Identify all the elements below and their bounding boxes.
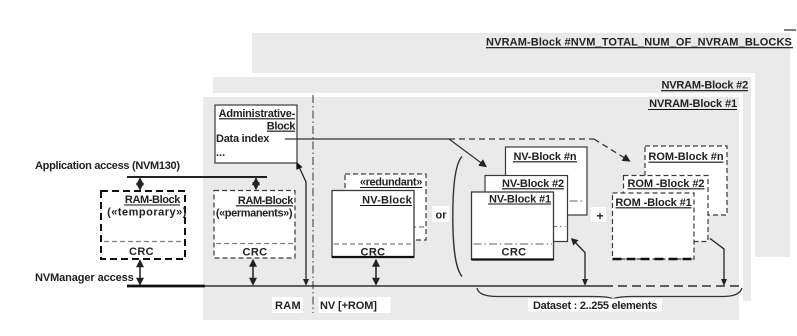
wire NVManager access line (dashed) bbox=[604, 285, 741, 287]
panel NVRAM-Block #1 (front) bbox=[199, 93, 743, 324]
panel NVRAM-Block #2 (middle) bbox=[209, 73, 755, 305]
box redundant NV-Block (dashed behind) bbox=[345, 174, 426, 240]
svg-text:CRC: CRC bbox=[501, 247, 526, 259]
svg-text:...: ... bbox=[216, 147, 225, 159]
box RAM-Block permanent bbox=[214, 191, 295, 259]
box RAM-Block temporary bbox=[101, 191, 185, 259]
box NV-Block #n bbox=[506, 147, 588, 215]
svg-text:RAM-Block: RAM-Block bbox=[238, 195, 294, 207]
divider CRC NV-Block #n bbox=[508, 200, 586, 202]
box NV-Block #2 bbox=[485, 176, 568, 242]
divider CRC NV-Block #2 bbox=[487, 226, 566, 228]
svg-text:(«temporary»): («temporary») bbox=[107, 207, 187, 219]
svg-text:NVManager access: NVManager access bbox=[35, 272, 134, 284]
arrow data index to NV-Block stack (solid diagonal) bbox=[449, 139, 486, 167]
svg-text:NV [+ROM]: NV [+ROM] bbox=[320, 300, 377, 312]
wire NVManager access line (solid) bbox=[204, 285, 604, 287]
svg-text:Data index: Data index bbox=[216, 133, 270, 145]
svg-text:RAM: RAM bbox=[275, 300, 301, 312]
svg-text:NV-Block: NV-Block bbox=[362, 195, 413, 207]
svg-text:or: or bbox=[436, 210, 448, 222]
box ROM-Block #n bbox=[645, 146, 727, 215]
svg-text:NVRAM-Block #2: NVRAM-Block #2 bbox=[662, 80, 749, 92]
arrow NV-Block stack to NVManager line (elbow double arrow) bbox=[574, 241, 586, 285]
svg-text:(«permanents»): («permanents») bbox=[216, 208, 293, 220]
divider CRC temporary bbox=[104, 241, 182, 243]
svg-text:Administrative-: Administrative- bbox=[219, 108, 296, 120]
brace dataset bbox=[477, 288, 742, 299]
box NV-Block (redundant front) bbox=[332, 191, 414, 258]
box ROM-Block #2 bbox=[624, 176, 709, 242]
svg-text:Application access (NVM130): Application access (NVM130) bbox=[35, 160, 180, 172]
wire data index dashed continuation bbox=[449, 138, 594, 140]
panel NVRAM-Block #NVM (back) bbox=[252, 33, 790, 257]
arrow data index to ROM-Block stack (dashed diagonal) bbox=[594, 139, 630, 161]
svg-text:ROM-Block #n: ROM-Block #n bbox=[648, 151, 723, 163]
arrow app line to RAM-Block permanent bbox=[255, 179, 257, 190]
svg-text:«redundant»: «redundant» bbox=[360, 177, 422, 189]
svg-text:ROM -Block #1: ROM -Block #1 bbox=[615, 197, 691, 209]
label NV [+ROM] bbox=[319, 297, 391, 313]
svg-text:ROM -Block #2: ROM -Block #2 bbox=[628, 178, 705, 190]
label Dataset : 2..255 elements bbox=[528, 299, 662, 312]
svg-text:NVRAM-Block #NVM_TOTAL_NUM_OF_: NVRAM-Block #NVM_TOTAL_NUM_OF_NVRAM_BLOC… bbox=[486, 37, 792, 49]
artifact dash top-right bbox=[784, 29, 796, 31]
label + bbox=[591, 207, 606, 222]
arrow RAM-Block temporary to NVManager line bbox=[139, 261, 141, 285]
box ROM-Block #1 bbox=[613, 193, 695, 259]
svg-text:NVRAM-Block #1: NVRAM-Block #1 bbox=[649, 98, 737, 110]
wire application access line bbox=[127, 176, 267, 178]
svg-text:CRC: CRC bbox=[129, 246, 154, 258]
box NV-Block #1 bbox=[472, 192, 554, 260]
arrow RAM-Block permanent to NVManager line bbox=[252, 260, 254, 285]
divider CRC NV-Block bbox=[334, 243, 412, 245]
wire NVManager access line (thick left) bbox=[127, 285, 205, 288]
divider redundant behind box bbox=[347, 226, 424, 228]
arrow ROM-Block stack to NVManager line (elbow) bbox=[710, 239, 724, 285]
svg-text:CRC: CRC bbox=[242, 247, 267, 259]
separator dash-dot line RAM / NV bbox=[312, 95, 314, 313]
arrow administrative block to NVManager line (elbow) bbox=[298, 164, 307, 285]
box Administrative-Block bbox=[215, 105, 297, 163]
svg-text:NV-Block #n: NV-Block #n bbox=[513, 151, 576, 163]
arrow NV-Block to NVManager line bbox=[375, 260, 377, 285]
svg-text:+: + bbox=[596, 209, 603, 223]
svg-text:NV-Block #2: NV-Block #2 bbox=[502, 178, 564, 190]
svg-text:Dataset : 2..255 elements: Dataset : 2..255 elements bbox=[533, 300, 657, 312]
label or bbox=[432, 206, 449, 222]
wire data index line bbox=[285, 138, 449, 140]
svg-text:CRC: CRC bbox=[360, 247, 385, 259]
divider CRC permanent bbox=[216, 243, 293, 245]
svg-text:RAM-Block: RAM-Block bbox=[125, 194, 181, 206]
brace left (grouping) bbox=[453, 157, 462, 277]
divider CRC NV-Block #1 bbox=[474, 243, 553, 245]
label RAM bbox=[272, 297, 303, 313]
arrow app line to RAM-Block temporary bbox=[139, 179, 141, 190]
